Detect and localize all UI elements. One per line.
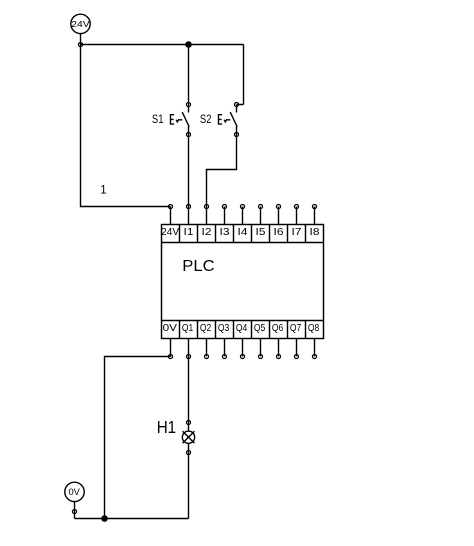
PLC input pin I1 (186, 204, 190, 224)
junction (24V bus / S1 branch) (185, 41, 192, 48)
PLC output pin Q5 (258, 339, 262, 359)
svg-text:Q7: Q7 (290, 323, 302, 334)
wire (24V bus horizontal) (81, 44, 244, 46)
svg-text:I8: I8 (310, 227, 320, 238)
svg-text:I7: I7 (292, 227, 302, 238)
lamp H1 (182, 420, 194, 454)
svg-text:24V: 24V (161, 227, 179, 238)
PLC input pin I5 (258, 204, 262, 224)
junction (0V rail) (101, 515, 108, 522)
svg-text:Q3: Q3 (218, 323, 230, 334)
PLC output pin Q3 (222, 339, 226, 359)
pushbutton S2 (219, 102, 239, 136)
svg-text:S2: S2 (200, 112, 212, 126)
svg-text:S1: S1 (152, 112, 164, 126)
PLC output pin Q8 (312, 339, 316, 359)
wire (bottom 0V rail) (75, 518, 189, 520)
svg-text:I6: I6 (274, 227, 284, 238)
wire (24V circle to terminal) (80, 34, 82, 45)
svg-text:I5: I5 (256, 227, 266, 238)
svg-text:0V: 0V (163, 323, 178, 334)
PLC input pin I8 (312, 204, 316, 224)
svg-text:24V: 24V (71, 19, 90, 29)
svg-text:PLC: PLC (182, 258, 214, 275)
svg-text:I3: I3 (220, 227, 230, 238)
wire (0V circle to terminal) (74, 502, 76, 512)
wire (0V pin to left drop rail) (105, 357, 171, 519)
wire (junction to S1) (188, 45, 190, 105)
wire (S2 to I2 pin) (207, 135, 237, 207)
svg-text:Q2: Q2 (200, 323, 212, 334)
svg-text:I2: I2 (202, 227, 212, 238)
svg-text:I4: I4 (238, 227, 248, 238)
PLC input pin I2 (204, 204, 208, 224)
svg-text:Q5: Q5 (254, 323, 266, 334)
wire (S1 to I1 pin) (188, 135, 190, 207)
PLC output pin Q7 (294, 339, 298, 359)
terminal node at 0V (72, 509, 76, 513)
PLC input pin I7 (294, 204, 298, 224)
PLC output pin Q1 (186, 339, 190, 359)
wire (left rail, net 1) (81, 45, 171, 207)
PLC input pin I6 (276, 204, 280, 224)
24V supply terminal (71, 14, 90, 33)
svg-text:0V: 0V (69, 487, 80, 497)
PLC input pin I3 (222, 204, 226, 224)
wire (Q1 pin to lamp H1) (188, 357, 190, 423)
PLC output pin 0V (168, 339, 172, 359)
PLC output pin Q2 (204, 339, 208, 359)
PLC U1 body (162, 225, 324, 339)
svg-text:Q8: Q8 (308, 323, 320, 334)
wire (lamp H1 to bottom rail) (188, 453, 190, 519)
wire (bus to S2) (237, 45, 244, 105)
PLC input pin I4 (240, 204, 244, 224)
terminal node at 24V (78, 42, 82, 46)
svg-text:Q1: Q1 (182, 323, 194, 334)
0V supply terminal (65, 482, 84, 501)
PLC input pin 24V (168, 204, 172, 224)
svg-text:Q4: Q4 (236, 323, 248, 334)
PLC output pin Q4 (240, 339, 244, 359)
PLC output pin Q6 (276, 339, 280, 359)
svg-text:I1: I1 (184, 227, 194, 238)
svg-text:H1: H1 (157, 417, 176, 437)
svg-text:Q6: Q6 (272, 323, 284, 334)
pushbutton S1 (171, 102, 191, 136)
wire (0V terminal to rail) (74, 512, 76, 519)
svg-text:1: 1 (100, 184, 106, 196)
